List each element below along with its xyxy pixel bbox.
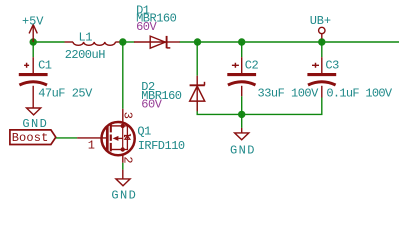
wire source green bbox=[122, 163, 124, 170]
transistor Q1 IRFD110 bbox=[102, 122, 135, 155]
capacitor C3 bbox=[307, 42, 336, 98]
svg-text:GND: GND bbox=[22, 117, 48, 131]
svg-text:C3: C3 bbox=[325, 59, 339, 73]
wire top rail left green bbox=[33, 41, 64, 43]
node C3/UB+ junction bbox=[318, 38, 325, 45]
svg-text:GND: GND bbox=[111, 188, 137, 202]
svg-text:Q1: Q1 bbox=[137, 125, 151, 139]
capacitor C2 bbox=[227, 42, 256, 114]
svg-text:+5V: +5V bbox=[22, 15, 44, 29]
svg-text:0.1uF 100V: 0.1uF 100V bbox=[326, 86, 393, 100]
capacitor C1 bbox=[19, 42, 48, 108]
wire top rail mid green bbox=[120, 41, 135, 43]
ground GND1 bbox=[27, 108, 41, 115]
svg-text:2: 2 bbox=[120, 156, 134, 163]
wire drain green bbox=[122, 42, 124, 109]
ground GND2 bbox=[235, 114, 249, 139]
svg-text:C1: C1 bbox=[38, 59, 52, 73]
svg-text:3: 3 bbox=[120, 112, 134, 119]
node D1/D2 junction bbox=[194, 38, 201, 45]
node L1/Q1 drain junction bbox=[119, 38, 126, 45]
node bottom rail GND junction bbox=[238, 111, 245, 118]
svg-text:IRFD110: IRFD110 bbox=[138, 139, 185, 153]
wire bottom rail bbox=[197, 98, 322, 115]
svg-text:47uF 25V: 47uF 25V bbox=[38, 87, 93, 101]
diode D1 MBR160 bbox=[134, 36, 180, 48]
wire source pin red bbox=[122, 155, 124, 163]
diode D2 MBR160 (vertical) bbox=[190, 42, 205, 111]
power pin UB+ bbox=[319, 27, 325, 42]
net flag Boost bbox=[10, 130, 56, 145]
wire gnd3 pin red bbox=[122, 170, 124, 179]
power +5V symbol bbox=[29, 25, 37, 42]
svg-text:2200uH: 2200uH bbox=[65, 48, 106, 62]
wire gate pin red bbox=[77, 137, 106, 139]
ground GND3 bbox=[116, 179, 130, 186]
svg-text:Boost: Boost bbox=[12, 131, 49, 145]
svg-text:L1: L1 bbox=[79, 30, 93, 44]
node +5V junction bbox=[30, 38, 37, 45]
svg-text:60V: 60V bbox=[136, 20, 157, 34]
svg-text:33uF 100V: 33uF 100V bbox=[258, 86, 320, 100]
svg-text:1: 1 bbox=[88, 139, 95, 153]
wire top rail right green bbox=[180, 41, 399, 43]
svg-text:UB+: UB+ bbox=[310, 14, 331, 28]
svg-text:C2: C2 bbox=[245, 59, 259, 73]
wire drain pin red bbox=[122, 109, 124, 124]
svg-text:GND: GND bbox=[230, 144, 256, 158]
svg-text:60V: 60V bbox=[141, 98, 162, 112]
node C2 top junction bbox=[238, 38, 245, 45]
wire gate green bbox=[56, 137, 77, 139]
inductor L1 bbox=[65, 42, 120, 45]
